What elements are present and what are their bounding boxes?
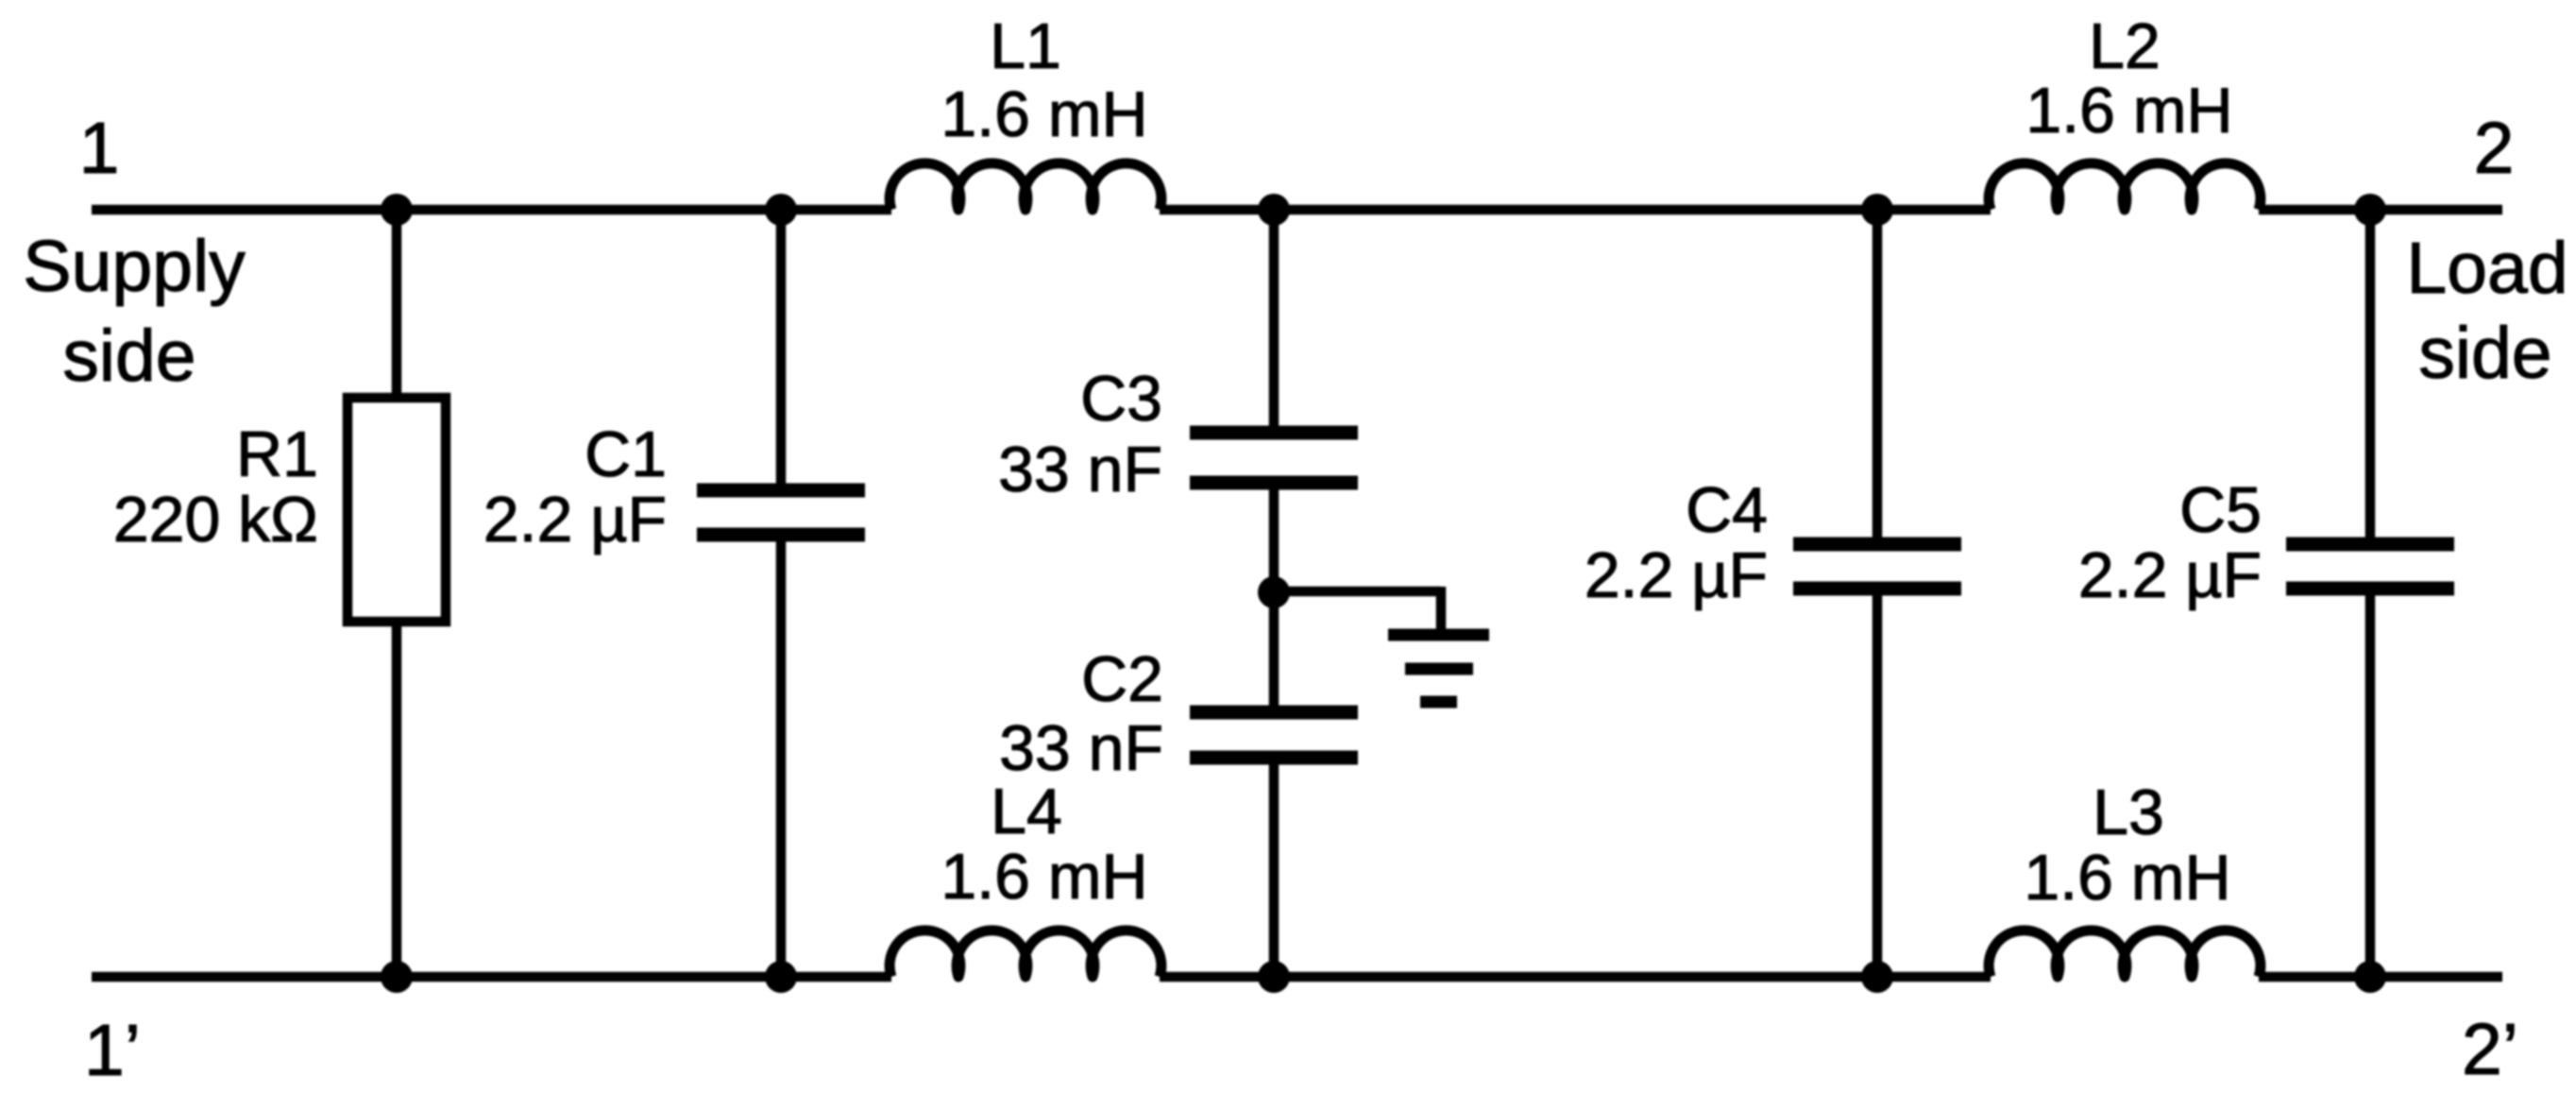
svg-text:1.6 mH: 1.6 mH (2025, 75, 2232, 146)
label C2 value 33 nF (999, 643, 1163, 784)
label C4 value 2.2 uF (1585, 474, 1768, 611)
wire C1 top lead (776, 210, 787, 488)
wire top rail middle segment (L1 to L2) (1160, 205, 1991, 215)
wire C1 bottom lead (776, 537, 787, 977)
svg-text:33 nF: 33 nF (999, 712, 1163, 784)
capacitor C3 (1190, 433, 1358, 483)
svg-text:2.2 µF: 2.2 µF (2078, 539, 2262, 611)
wire bottom rail right segment (L3 to port 2') (2259, 972, 2502, 982)
svg-text:2: 2 (2474, 108, 2515, 189)
node dot bottom rail at C1 (765, 961, 797, 993)
wire top rail left segment (port 1 to L1) (92, 205, 891, 215)
wire bottom rail middle segment (L4 to L3) (1160, 972, 1991, 982)
svg-text:Load: Load (2406, 228, 2568, 309)
inductor L1 (890, 163, 1161, 210)
wire C2 bottom lead (1269, 760, 1280, 977)
svg-text:C4: C4 (1686, 474, 1768, 546)
label L2 value 1.6 mH (2025, 10, 2232, 146)
svg-text:side: side (2418, 313, 2551, 394)
svg-text:33 nF: 33 nF (998, 434, 1162, 505)
node dot top rail at R1 (381, 194, 413, 226)
node dot bottom rail at C5 (2354, 961, 2386, 993)
inductor L4 (890, 931, 1161, 977)
svg-text:1.6 mH: 1.6 mH (941, 78, 1147, 150)
svg-text:C3: C3 (1080, 363, 1162, 435)
label C3 value 33 nF (998, 363, 1162, 505)
inductor L3 (1989, 931, 2261, 977)
node dot top rail at C3 (1258, 194, 1290, 226)
wire C5 bottom lead (2365, 590, 2376, 977)
svg-text:L1: L1 (990, 10, 1061, 82)
wire C4 bottom lead (1873, 590, 1883, 977)
wire C5 top lead (2365, 210, 2376, 542)
svg-text:1.6 mH: 1.6 mH (941, 841, 1147, 913)
node dot bottom rail at C4 (1861, 961, 1893, 993)
svg-text:1’: 1’ (84, 1010, 141, 1091)
label L1 value 1.6 mH (941, 10, 1147, 150)
svg-text:L4: L4 (991, 776, 1062, 847)
svg-text:2.2 µF: 2.2 µF (483, 484, 667, 555)
node dot bottom rail at C2 (1258, 961, 1290, 993)
svg-text:2.2 µF: 2.2 µF (1585, 539, 1768, 611)
svg-text:Supply: Supply (23, 226, 246, 307)
label L3 value 1.6 mH (2024, 777, 2230, 914)
wire C4 top lead (1873, 210, 1883, 542)
wire ground branch vertical (1436, 587, 1447, 629)
wire top rail right segment (L2 to port 2) (2259, 205, 2502, 215)
svg-text:side: side (62, 316, 195, 397)
wire C3 top lead (1269, 210, 1280, 431)
wire C3 to C2 (node between) (1269, 485, 1280, 710)
wire R1 top lead (392, 210, 402, 401)
svg-text:C2: C2 (1081, 643, 1163, 715)
label Load side (2406, 228, 2568, 394)
svg-text:C1: C1 (585, 418, 667, 490)
svg-text:2’: 2’ (2462, 1009, 2518, 1090)
label Supply side (23, 226, 246, 397)
node dot bottom rail at R1 (381, 961, 413, 993)
label L4 value 1.6 mH (941, 776, 1147, 913)
capacitor C2 (1190, 712, 1358, 758)
resistor R1 (347, 398, 446, 622)
inductor L2 (1989, 163, 2261, 210)
node dot top rail at C1 (765, 194, 797, 226)
svg-text:L3: L3 (2093, 777, 2164, 848)
label C1 value 2.2 uF (483, 418, 667, 555)
svg-text:L2: L2 (2089, 10, 2161, 82)
node dot top rail at C5 (2354, 194, 2386, 226)
wire ground branch horizontal (1274, 587, 1441, 597)
wire R1 bottom lead (392, 618, 402, 977)
ground (1388, 635, 1489, 702)
capacitor C4 (1793, 544, 1961, 589)
wire bottom rail left segment (port 1' to L4) (92, 972, 891, 982)
capacitor C5 (2286, 544, 2454, 589)
svg-text:1: 1 (79, 108, 120, 189)
label C5 value 2.2 uF (2078, 474, 2262, 611)
svg-text:C5: C5 (2179, 474, 2262, 546)
node dot top rail at C4 (1861, 194, 1893, 226)
svg-text:220 kΩ: 220 kΩ (113, 484, 318, 555)
svg-text:R1: R1 (236, 418, 318, 490)
capacitor C1 (697, 490, 865, 535)
node dot between C3 and C2 (ground node) (1258, 576, 1290, 608)
svg-text:1.6 mH: 1.6 mH (2024, 842, 2230, 914)
label R1 value 220 kOhm (113, 418, 318, 555)
